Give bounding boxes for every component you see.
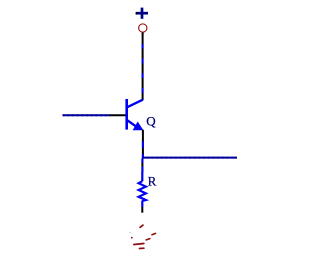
resistor R xyxy=(139,172,146,207)
power terminal plus symbol xyxy=(136,8,148,19)
svg-text:R: R xyxy=(148,173,157,188)
terminal pin red connector xyxy=(142,32,144,34)
wire collector vertical xyxy=(142,33,144,100)
transistor Q xyxy=(127,99,144,130)
wire base horizontal xyxy=(63,114,126,116)
terminal circle xyxy=(139,24,147,32)
ground symbol xyxy=(129,225,155,248)
node emitter junction xyxy=(142,157,144,159)
svg-text:Q: Q xyxy=(146,113,156,128)
wire emitter horizontal right xyxy=(142,157,237,159)
wire emitter vertical xyxy=(142,130,144,159)
wire junction to resistor xyxy=(141,159,143,173)
wire resistor bottom pin xyxy=(141,207,143,213)
